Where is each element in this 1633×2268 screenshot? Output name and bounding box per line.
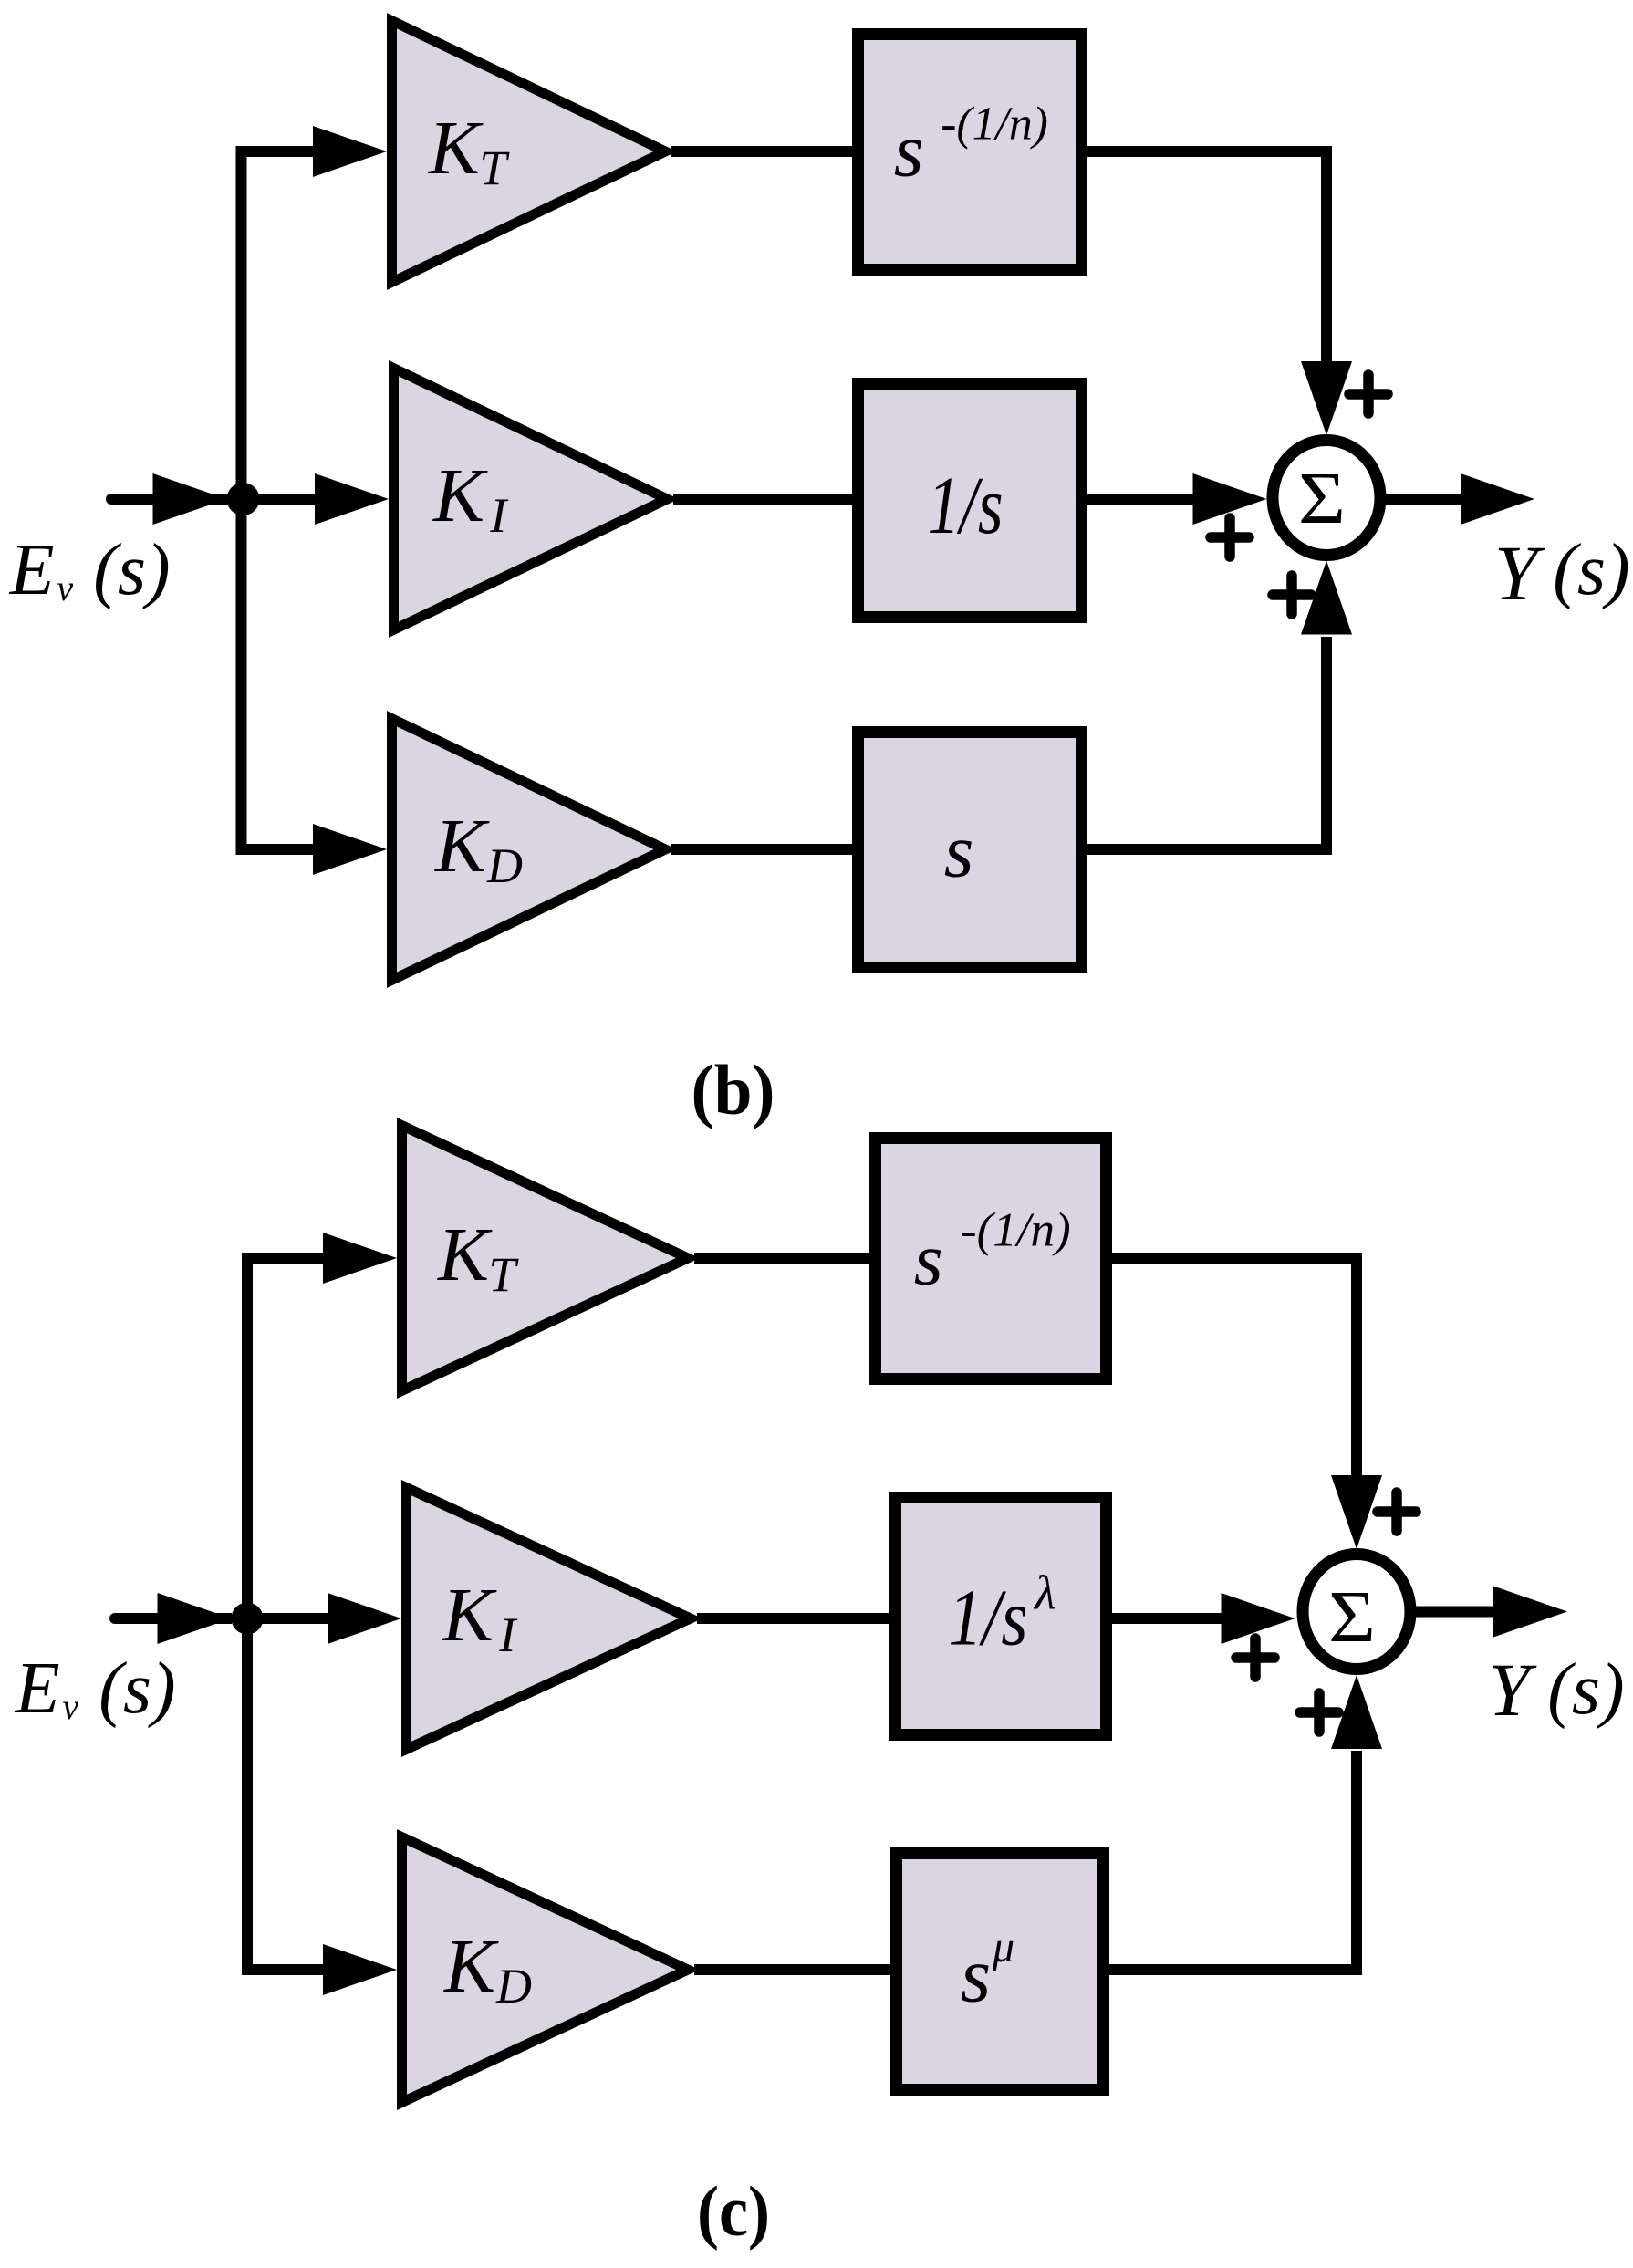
svg-text:K: K (443, 1924, 499, 2009)
svg-text:v: v (62, 1686, 78, 1727)
svg-text:K: K (437, 1212, 493, 1297)
svg-text:I: I (489, 488, 509, 543)
svg-text:(s): (s) (1547, 1649, 1624, 1730)
svg-text:Σ: Σ (1328, 1576, 1376, 1658)
svg-text:T: T (479, 140, 510, 195)
svg-text:D: D (486, 838, 523, 893)
svg-text:(s): (s) (1553, 530, 1629, 610)
svg-text:I: I (498, 1607, 518, 1662)
svg-text:s: s (961, 1931, 991, 2019)
svg-text:(s): (s) (93, 530, 170, 610)
svg-text:K: K (434, 804, 490, 889)
svg-text:1/s: 1/s (948, 1575, 1027, 1663)
svg-text:E: E (15, 1649, 60, 1729)
svg-text:D: D (495, 1959, 532, 2013)
svg-text:(s): (s) (99, 1649, 175, 1729)
svg-text:Y: Y (1488, 1648, 1537, 1732)
svg-text:λ: λ (1033, 1566, 1056, 1619)
svg-text:s: s (894, 109, 924, 193)
svg-text:Y: Y (1494, 529, 1545, 617)
svg-text:K: K (432, 453, 488, 538)
svg-text:Σ: Σ (1298, 457, 1346, 539)
svg-text:μ: μ (992, 1923, 1014, 1971)
svg-text:K: K (442, 1573, 497, 1658)
svg-text:s: s (944, 809, 974, 894)
svg-text:E: E (9, 530, 55, 610)
svg-text:-(1/n): -(1/n) (961, 1204, 1071, 1257)
svg-text:1/s: 1/s (928, 461, 1004, 551)
svg-text:(b): (b) (692, 1050, 775, 1129)
svg-text:K: K (428, 106, 484, 191)
svg-text:-(1/n): -(1/n) (941, 99, 1048, 151)
svg-text:(c): (c) (697, 2171, 770, 2251)
svg-text:s: s (914, 1218, 943, 1301)
svg-text:v: v (57, 567, 73, 609)
svg-text:T: T (488, 1247, 519, 1302)
